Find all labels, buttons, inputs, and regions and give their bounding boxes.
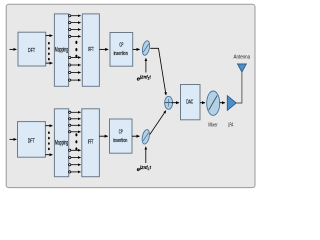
summer S1 bbox=[165, 96, 173, 109]
ellipsis dots between Mapping1 and IFFT1 bbox=[75, 41, 77, 58]
antenna bbox=[238, 64, 247, 72]
wire e1 into multiplier1 bbox=[145, 58, 147, 72]
wire summer to DAC bbox=[172, 102, 179, 104]
wire CP2 to multiplier2 bbox=[132, 135, 140, 137]
svg-text:DAC: DAC bbox=[186, 100, 193, 106]
block DFT (top) bbox=[18, 32, 46, 66]
wires Mapping2 to IFFT2 (top group with connector circles) bbox=[69, 111, 81, 133]
amplifier LPA bbox=[227, 96, 236, 111]
svg-text:IFFT: IFFT bbox=[88, 140, 94, 146]
multiplier M1 (top) bbox=[141, 40, 151, 56]
block DAC bbox=[181, 85, 201, 120]
wire IFFT2 to CP2 bbox=[99, 135, 107, 137]
wire DFT2 to Mapping2 (upper) bbox=[45, 125, 52, 127]
wire input arrow (top branch) bbox=[10, 48, 17, 50]
wire IFFT1 to CP1 bbox=[99, 48, 108, 50]
svg-text:DFT: DFT bbox=[28, 48, 35, 54]
wire DFT1 to Mapping1 (lower) bbox=[46, 62, 53, 64]
ellipsis dots between Mapping2 and IFFT2 bbox=[75, 133, 77, 150]
wire multiplier2 to summer bbox=[150, 111, 166, 135]
block CP insertion (bottom) bbox=[110, 119, 133, 153]
svg-text:insertion: insertion bbox=[113, 138, 127, 144]
wire LPA to antenna bbox=[236, 72, 242, 104]
svg-text:insertion: insertion bbox=[114, 51, 128, 57]
svg-text:Mixer: Mixer bbox=[208, 122, 218, 128]
wire mixer to LPA bbox=[220, 102, 225, 104]
svg-text:Mapping: Mapping bbox=[55, 48, 68, 54]
svg-text:CP: CP bbox=[119, 129, 123, 135]
svg-text:LPA: LPA bbox=[228, 122, 234, 128]
svg-text:DFT: DFT bbox=[28, 139, 35, 145]
svg-text:IFFT: IFFT bbox=[88, 47, 94, 53]
wire input arrow (bottom branch) bbox=[10, 138, 17, 140]
block DFT (bottom) bbox=[18, 122, 46, 158]
wire DFT2 to Mapping2 (lower) bbox=[45, 154, 52, 156]
block Mapping (top) bbox=[54, 14, 68, 86]
wire DFT1 to Mapping1 (upper) bbox=[46, 35, 53, 37]
wires Mapping2 to IFFT2 (bottom group with connector circles) bbox=[69, 149, 81, 173]
wire DAC to mixer bbox=[200, 102, 205, 104]
wire CP1 to multiplier1 bbox=[133, 48, 140, 50]
wire multiplier1 to summer bbox=[150, 48, 166, 95]
svg-text:Mapping: Mapping bbox=[55, 140, 68, 146]
ellipsis dots between DFT1 and Mapping1 bbox=[48, 42, 50, 60]
svg-text:Antenna: Antenna bbox=[234, 54, 251, 60]
block Mapping (bottom) bbox=[54, 109, 68, 177]
wires Mapping1 to IFFT1 (top group with connector circles) bbox=[69, 15, 81, 38]
ellipsis dots between DFT2 and Mapping2 bbox=[48, 131, 50, 150]
mixer MX1 bbox=[207, 91, 220, 115]
block IFFT (bottom) bbox=[82, 109, 100, 177]
block IFFT (top) bbox=[82, 14, 99, 86]
multiplier M2 (bottom) bbox=[141, 129, 151, 145]
wires Mapping1 to IFFT1 (bottom group with connector circles) bbox=[69, 56, 81, 81]
svg-text:CP: CP bbox=[119, 42, 123, 48]
block CP insertion (top) bbox=[110, 33, 133, 67]
wire e2 into multiplier2 bbox=[145, 147, 147, 163]
